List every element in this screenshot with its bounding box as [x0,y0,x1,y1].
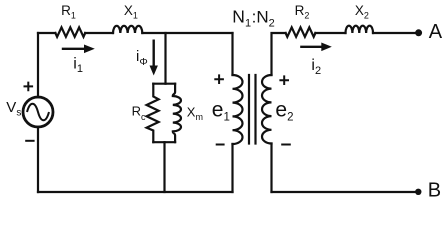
transformer core line 1 [248,75,250,144]
wire shunt drain to bottom rail [163,142,165,192]
wire left rail lower [37,127,39,192]
svg-text:Rc: Rc [132,103,146,122]
wire X2 to terminal A [373,32,415,34]
inductor Xm [173,84,181,143]
label minus at source [25,140,34,142]
label plus secondary [279,75,289,85]
svg-text:R1: R1 [61,3,76,21]
svg-text:N1:N2: N1:N2 [232,6,274,29]
wire X1 to transformer primary (through shunt node) [142,32,232,34]
wire top rail left segment [38,32,55,34]
wire transformer primary bottom lead [231,144,233,192]
wire shunt top bar [153,83,175,85]
current arrow i1 [62,45,95,54]
label minus primary [216,144,225,146]
wire shunt bottom bar [153,141,175,143]
svg-text:X2: X2 [355,3,369,21]
svg-text:A: A [429,21,443,43]
transformer primary winding [233,75,243,144]
wire transformer secondary top lead [272,33,286,75]
voltage source sine symbol [27,104,49,121]
resistor R2 [286,27,316,36]
inductor X2 [346,26,374,33]
voltage source Vs circle [23,97,53,127]
terminal A dot [415,29,422,36]
svg-text:B: B [428,180,441,202]
wire shunt feed from top rail [164,33,166,84]
wire transformer primary top lead [231,33,233,75]
transformer core line 2 [254,75,256,144]
current arrow i_phi [150,40,158,76]
svg-text:i2: i2 [311,57,321,77]
terminal B dot [415,189,421,195]
resistor R1 [55,27,85,36]
label plus at source [24,82,34,92]
svg-text:Vs: Vs [6,99,21,119]
transformer secondary winding [262,75,272,143]
wire between R1 and X1 [85,32,113,34]
label minus secondary [281,144,291,146]
svg-text:Xm: Xm [187,104,203,122]
wire bottom rail secondary side to terminal B [272,191,416,193]
wire bottom rail primary side [38,191,233,193]
inductor X1 [113,26,142,33]
svg-text:e1: e1 [212,98,230,123]
svg-text:R2: R2 [295,3,310,21]
svg-text:e2: e2 [275,98,293,123]
resistor Rc [147,84,159,143]
label plus primary [214,74,224,84]
wire left rail upper [37,33,39,97]
wire transformer secondary bottom lead [270,144,272,193]
wire between R2 and X2 [315,32,345,34]
svg-text:i1: i1 [73,56,83,76]
current arrow i2 [300,43,332,52]
svg-text:X1: X1 [124,3,138,21]
svg-text:iΦ: iΦ [136,48,148,68]
